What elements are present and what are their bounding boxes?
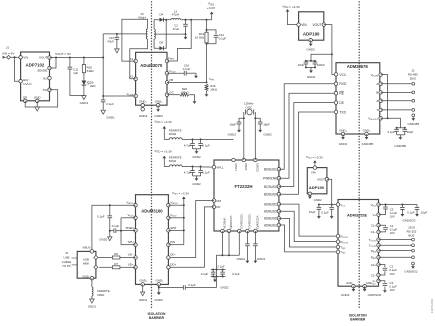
svg-text:C1+: C1+	[371, 224, 377, 228]
svg-text:VCCIO(R): VCCIO(R)	[256, 216, 260, 229]
svg-text:16V: 16V	[390, 272, 395, 276]
svg-text:0.1μF: 0.1μF	[217, 265, 225, 269]
svg-text:GND485: GND485	[394, 144, 406, 148]
svg-text:VOUT: VOUT	[317, 178, 325, 182]
svg-text:GND2: GND2	[154, 298, 163, 302]
svg-text:TXD: TXD	[339, 110, 346, 114]
svg-text:VREGIN: VREGIN	[223, 218, 227, 229]
svg-text:BARRIER: BARRIER	[350, 317, 366, 321]
svg-text:Y: Y	[376, 108, 378, 112]
svg-text:549Ω: 549Ω	[87, 69, 95, 73]
svg-text:GND2: GND2	[341, 293, 350, 297]
svg-text:FB: FB	[169, 78, 173, 82]
svg-text:100kΩ: 100kΩ	[180, 91, 189, 95]
svg-text:GND1: GND1	[80, 101, 89, 105]
svg-text:CABLE: CABLE	[62, 260, 72, 264]
svg-text:10nF: 10nF	[298, 63, 305, 67]
svg-text:J4: J4	[65, 251, 68, 255]
svg-text:DE: DE	[339, 101, 344, 105]
svg-text:GND485: GND485	[362, 142, 374, 146]
svg-text:0.1μF: 0.1μF	[321, 210, 329, 214]
svg-text:VBUS: VBUS	[83, 246, 91, 250]
svg-text:C1−: C1−	[371, 230, 377, 234]
svg-text:0.1μF: 0.1μF	[106, 102, 114, 106]
svg-text:GND: GND	[34, 96, 42, 100]
svg-text:0.1μF: 0.1μF	[387, 130, 395, 134]
svg-text:4.7μF: 4.7μF	[184, 143, 192, 147]
svg-text:GND2: GND2	[307, 75, 316, 79]
svg-text:13073-001: 13073-001	[430, 299, 434, 314]
svg-text:PDEN: PDEN	[126, 226, 134, 230]
svg-text:0.1μF: 0.1μF	[183, 67, 191, 71]
svg-text:PWREN#: PWREN#	[263, 176, 277, 180]
svg-text:V−: V−	[372, 279, 376, 283]
svg-text:47μF: 47μF	[107, 40, 114, 44]
svg-text:GNDISO2: GNDISO2	[368, 293, 382, 297]
svg-text:VCCIO(B): VCCIO(B)	[229, 216, 233, 229]
svg-text:47μH: 47μH	[172, 13, 179, 17]
svg-text:A: A	[376, 82, 378, 86]
svg-text:USB: USB	[64, 255, 70, 259]
svg-text:VPLL: VPLL	[216, 165, 224, 169]
svg-text:GND1: GND1	[139, 298, 148, 302]
svg-text:SPD: SPD	[170, 226, 176, 230]
svg-text:C2−: C2−	[371, 273, 377, 277]
svg-text:4.7μF: 4.7μF	[184, 171, 192, 175]
svg-text:0.1μF: 0.1μF	[97, 215, 105, 219]
svg-text:VOUT = 5V: VOUT = 5V	[55, 52, 72, 56]
svg-text:GND2: GND2	[257, 257, 266, 261]
svg-text:VPHY: VPHY	[234, 163, 238, 171]
svg-text:DP: DP	[216, 205, 220, 209]
svg-text:SPU: SPU	[128, 240, 134, 244]
svg-text:PIN: PIN	[170, 240, 175, 244]
svg-text:FT2232H: FT2232H	[235, 184, 253, 189]
svg-text:10μF: 10μF	[309, 210, 316, 214]
svg-text:D5: D5	[159, 41, 163, 45]
svg-text:BDBUS0: BDBUS0	[264, 192, 277, 196]
svg-text:ADP7102: ADP7102	[26, 62, 45, 67]
svg-text:0.1μF: 0.1μF	[407, 210, 415, 214]
svg-text:16V: 16V	[390, 231, 395, 235]
svg-text:BUS: BUS	[409, 234, 415, 238]
svg-text:C2+: C2+	[371, 263, 377, 267]
svg-text:0.1μF: 0.1μF	[112, 224, 120, 228]
svg-text:GND1: GND1	[139, 114, 148, 118]
svg-text:ADM2867E: ADM2867E	[347, 64, 368, 69]
svg-text:TO PC: TO PC	[62, 264, 71, 268]
svg-text:VCC: VCC	[339, 73, 347, 77]
svg-text:EP: EP	[23, 96, 27, 100]
svg-text:ADM3252E: ADM3252E	[347, 213, 368, 218]
svg-text:18pF: 18pF	[263, 122, 270, 126]
svg-text:R7: R7	[114, 262, 118, 266]
svg-text:18pF: 18pF	[230, 122, 237, 126]
svg-text:VIN: VIN	[311, 171, 316, 175]
svg-text:VIN: VIN	[301, 23, 307, 27]
svg-text:GND2: GND2	[228, 133, 237, 137]
svg-text:GND2: GND2	[192, 182, 201, 186]
svg-text:GND2: GND2	[192, 155, 201, 159]
svg-text:10μF: 10μF	[421, 210, 428, 214]
svg-text:VCCIO(A1): VCCIO(A1)	[248, 214, 252, 229]
svg-text:ADBUS1: ADBUS1	[264, 202, 277, 206]
svg-text:OSCI: OSCI	[244, 163, 248, 170]
svg-text:10V: 10V	[390, 215, 395, 219]
svg-text:0.1μF: 0.1μF	[202, 143, 210, 147]
svg-text:0.1μF: 0.1μF	[202, 171, 210, 175]
svg-text:VCCIO(A2): VCCIO(A2)	[239, 214, 243, 229]
svg-text:GND: GND	[346, 281, 352, 285]
svg-text:R6: R6	[114, 252, 118, 256]
svg-text:GNDISO2: GNDISO2	[402, 218, 415, 222]
svg-text:GND2: GND2	[263, 133, 272, 137]
svg-text:MINI: MINI	[83, 262, 89, 266]
svg-text:0.1μF: 0.1μF	[219, 37, 227, 41]
svg-text:ADuM3160: ADuM3160	[141, 209, 163, 214]
svg-text:GNDISO2: GNDISO2	[404, 270, 417, 274]
svg-text:100nF: 100nF	[317, 63, 325, 67]
svg-text:0.1μF: 0.1μF	[188, 283, 196, 287]
svg-text:SENSE: SENSE	[37, 69, 47, 73]
svg-text:16.5kΩ: 16.5kΩ	[195, 36, 205, 40]
svg-text:GND2: GND2	[237, 257, 246, 261]
svg-text:BUS: BUS	[410, 77, 416, 81]
svg-text:D4: D4	[159, 12, 163, 16]
svg-text:0.1μF: 0.1μF	[201, 272, 209, 276]
svg-text:GND1: GND1	[88, 304, 97, 308]
svg-text:GND2: GND2	[339, 142, 348, 146]
svg-text:VOUT: VOUT	[313, 23, 322, 27]
svg-text:+3.3V: +3.3V	[207, 6, 216, 10]
svg-text:GND: GND	[82, 274, 88, 278]
svg-text:DM: DM	[216, 199, 221, 203]
svg-text:600Ω: 600Ω	[97, 293, 105, 297]
svg-text:Z: Z	[376, 99, 378, 103]
svg-text:10kΩ: 10kΩ	[210, 88, 218, 92]
svg-text:V+: V+	[372, 213, 376, 217]
svg-text:J1: J1	[6, 46, 10, 50]
svg-text:UD+: UD+	[128, 262, 134, 266]
svg-text:ADBUS0: ADBUS0	[264, 217, 277, 221]
svg-text:600Ω: 600Ω	[169, 159, 177, 163]
svg-text:ADP190: ADP190	[309, 185, 325, 190]
svg-text:47μF: 47μF	[173, 27, 180, 31]
svg-text:ADP190: ADP190	[303, 32, 320, 37]
svg-text:DD+: DD+	[170, 262, 176, 266]
svg-text:GND485: GND485	[407, 122, 419, 126]
svg-text:VIN: VIN	[23, 56, 28, 60]
svg-text:600Ω: 600Ω	[169, 132, 177, 136]
svg-text:OSCO: OSCO	[256, 163, 260, 172]
svg-text:UD−: UD−	[128, 253, 134, 257]
svg-text:LED: LED	[90, 84, 96, 88]
svg-text:GND2: GND2	[154, 114, 163, 118]
svg-text:BARRIER: BARRIER	[149, 316, 165, 320]
svg-text:ADBUS2: ADBUS2	[264, 223, 277, 227]
svg-text:OSC: OSC	[246, 105, 253, 109]
svg-text:GND2: GND2	[307, 47, 316, 51]
svg-text:GND2: GND2	[314, 198, 322, 202]
svg-text:GND1: GND1	[99, 237, 108, 241]
svg-text:PG: PG	[43, 88, 48, 92]
svg-text:GND1: GND1	[106, 116, 115, 120]
svg-text:UVLO: UVLO	[23, 82, 32, 86]
svg-text:RE: RE	[339, 92, 344, 96]
svg-text:B: B	[376, 91, 378, 95]
svg-text:BDBUS1: BDBUS1	[264, 167, 277, 171]
svg-text:16V: 16V	[390, 288, 395, 292]
svg-text:RXD: RXD	[339, 82, 347, 86]
svg-text:GND2: GND2	[220, 286, 229, 290]
svg-text:ADBUS3: ADBUS3	[264, 210, 277, 214]
svg-text:1μF: 1μF	[73, 71, 78, 75]
svg-text:0.1μF: 0.1μF	[232, 272, 240, 276]
svg-text:10μF: 10μF	[407, 130, 414, 134]
svg-text:DD−: DD−	[170, 253, 176, 257]
svg-text:VOUT: VOUT	[39, 56, 48, 60]
svg-text:BCBUS0: BCBUS0	[264, 185, 277, 189]
